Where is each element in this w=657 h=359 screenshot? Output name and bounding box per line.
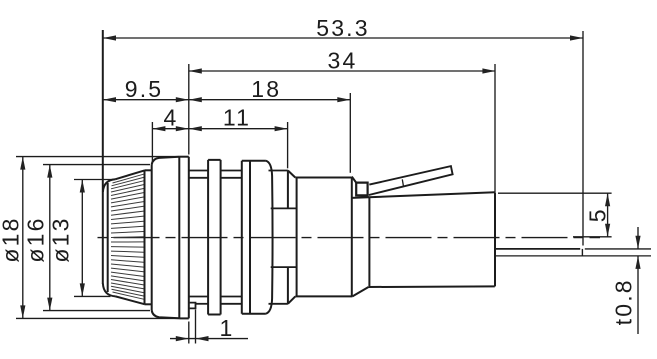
arrowhead t0.8 bottom [635, 256, 640, 269]
lug base chamfer [352, 177, 356, 183]
arrowhead dia18 top [20, 157, 25, 170]
panel back face [188, 157, 190, 319]
knurl hatch lines [111, 174, 144, 299]
dim 34 right extension line [494, 64, 496, 192]
arrowhead 4 left [152, 126, 165, 131]
arrowhead 5 bottom [605, 224, 610, 237]
knurl-to-skirt bottom link [145, 303, 153, 305]
arrowhead 11 right [275, 126, 288, 131]
thread crest bottom, nut to end [269, 303, 288, 305]
thread crest top, nut to end [269, 170, 288, 172]
dim 5 bottom extension line [573, 236, 612, 238]
dim 34 left extension line [188, 64, 190, 155]
skirt back face [178, 157, 180, 319]
arrowhead 53.3 right [570, 35, 583, 40]
skirt cone top edge [152, 157, 180, 165]
knurl bottom edge [116, 296, 145, 304]
svg-text:34: 34 [328, 47, 358, 73]
centerline [98, 237, 601, 239]
svg-text:1: 1 [220, 315, 235, 341]
arrowhead t0.8 top [635, 236, 640, 249]
dim dia18 line [22, 157, 24, 319]
hex nut bottom edge [242, 313, 266, 315]
thread end face top [287, 171, 289, 209]
cap front inner edge [107, 183, 109, 292]
thread end face bottom [287, 267, 289, 304]
cap front bottom fillet [103, 284, 116, 297]
svg-text:t0.8: t0.8 [611, 278, 637, 325]
hex nut face arc [266, 161, 273, 314]
panel bottom edge [179, 317, 189, 319]
dim 34 line [189, 70, 496, 72]
knurl top edge [116, 170, 145, 179]
dia16 top extension line [43, 164, 150, 166]
rear step edge [368, 197, 370, 287]
dim t0.8 lower arrow line [637, 256, 639, 334]
thread root top, washer to nut [221, 177, 242, 179]
svg-text:11: 11 [223, 104, 251, 130]
inner sleeve top edge [271, 207, 297, 209]
cap front face [102, 30, 104, 284]
dim 5 line [607, 193, 609, 237]
arrowhead dia13 top [80, 180, 85, 193]
dia16 bottom extension line [43, 310, 150, 312]
arrowhead 18 right [337, 97, 350, 102]
dia18 bottom extension line [16, 317, 179, 319]
arrowhead 9.5 right [176, 97, 189, 102]
svg-text:ø16: ø16 [23, 216, 49, 262]
t0.8 upper extension line [585, 248, 651, 250]
arrowhead 1 left [176, 336, 189, 341]
arrowhead 9.5 left [103, 97, 116, 102]
solder lug bend line [402, 179, 403, 186]
arrowhead 34 right [482, 68, 495, 73]
hex nut mid edge [249, 161, 251, 314]
arrowhead 11 left [189, 126, 202, 131]
dia13 top extension line [74, 179, 114, 181]
dim 4 line [152, 128, 188, 130]
thread end chamfer bottom [288, 296, 295, 303]
lug base square [356, 183, 367, 196]
dim 4 left extension line [151, 122, 153, 164]
dim 18 right extension line [349, 93, 351, 173]
arrowhead dia13 bottom [80, 283, 85, 296]
hex nut left face [241, 161, 243, 314]
hex nut top edge [242, 160, 266, 162]
skirt cone bottom edge [152, 311, 180, 319]
dim 1 right extension line [195, 310, 197, 344]
dim 9.5 line [103, 99, 189, 101]
inner sleeve bottom edge [271, 266, 297, 268]
rear end face [494, 192, 496, 286]
panel top edge [179, 156, 189, 158]
dia18 top extension line [16, 156, 179, 158]
dim 11 line [189, 128, 288, 130]
arrowhead 53.3 left [103, 35, 116, 40]
skirt front face [151, 164, 153, 310]
svg-text:4: 4 [164, 104, 179, 130]
dim 18 line [189, 99, 350, 101]
body right face [351, 178, 353, 297]
terminal top edge [496, 248, 580, 250]
dim 5 top extension line [498, 192, 612, 194]
knurl-to-skirt top link [145, 169, 152, 171]
thread root bottom, panel to washer [189, 296, 208, 298]
rear top edge [352, 192, 495, 198]
svg-text:18: 18 [251, 76, 281, 102]
dia13 bottom extension line [74, 295, 111, 297]
thread crest top, panel to washer [189, 170, 208, 172]
thread crest bottom, washer to nut [221, 303, 242, 305]
solder lug [369, 166, 453, 195]
cap front top fillet [103, 179, 116, 192]
dim 53.3 line [103, 37, 583, 39]
thread end chamfer top [288, 171, 295, 178]
terminal end edge [581, 249, 583, 256]
dim dia16 line [49, 165, 51, 311]
svg-text:ø18: ø18 [0, 216, 24, 262]
svg-text:9.5: 9.5 [125, 76, 164, 102]
body top edge [295, 177, 352, 179]
anti-rotation tab [190, 303, 196, 309]
arrowhead 5 top [605, 193, 610, 206]
arrowhead dia16 top [47, 165, 52, 178]
svg-text:ø13: ø13 [48, 216, 74, 262]
arrowhead 34 left [189, 68, 202, 73]
dim 1 left extension line [188, 322, 190, 344]
thread root top, panel to washer [189, 177, 208, 179]
arrowhead dia16 bottom [47, 298, 52, 311]
body bottom edge [295, 295, 352, 297]
knurl back edge [144, 170, 146, 304]
svg-text:5: 5 [585, 207, 611, 222]
arrowhead 18 left [189, 97, 202, 102]
arrowhead 1 right [196, 336, 209, 341]
thread crest bottom, tab to washer [196, 303, 209, 305]
dim t0.8 upper arrow line [637, 227, 639, 249]
thread root bottom, washer to nut [221, 296, 242, 298]
washer [208, 160, 221, 315]
body left face [296, 178, 298, 297]
dim 11 right extension line [287, 122, 289, 168]
dim 53.3 right extension line [582, 31, 584, 246]
terminal bottom edge and t0.8 lower extension [496, 255, 651, 257]
arrowhead dia18 bottom [20, 305, 25, 318]
rear bottom cone [352, 287, 368, 296]
thread crest top, washer to nut [221, 170, 242, 172]
dim 1 line [170, 338, 248, 340]
arrowhead 4 right [176, 126, 189, 131]
dim dia13 line [81, 180, 83, 297]
svg-text:53.3: 53.3 [316, 15, 370, 41]
rear bottom edge [369, 285, 495, 288]
